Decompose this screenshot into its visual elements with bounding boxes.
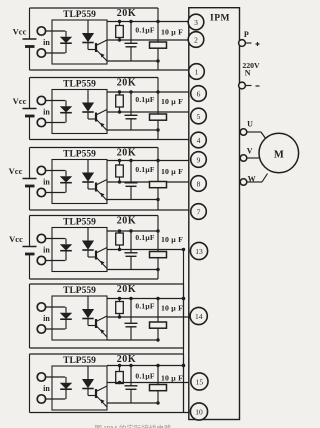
svg-text:Vcc: Vcc — [13, 96, 27, 106]
pin 14 terminal circle — [190, 307, 207, 324]
input LED D6 — [65, 377, 67, 383]
pin 4 terminal circle — [191, 132, 207, 148]
pin 1 terminal circle — [189, 64, 205, 80]
svg-text:U: U — [247, 120, 253, 129]
input terminal top channel 5 — [37, 303, 45, 311]
svg-text:in: in — [43, 384, 50, 393]
input terminal bottom channel 4 — [37, 256, 45, 264]
photodiode channel 3 — [87, 160, 89, 173]
wire input bottom from LED — [46, 122, 66, 124]
pin 3 terminal circle — [188, 14, 204, 30]
input LED D5 — [65, 307, 67, 313]
svg-text:TLP559: TLP559 — [63, 150, 96, 160]
optocoupler channel 1 outer box — [30, 7, 159, 9]
plus sign — [256, 43, 260, 45]
wire input top to LED — [46, 238, 66, 240]
input terminal top channel 4 — [37, 234, 45, 242]
Vcc top wire channel 6 — [107, 365, 184, 367]
svg-text:in: in — [43, 38, 50, 47]
Vcc top wire channel 5 — [107, 298, 184, 300]
wire input top to LED — [46, 306, 66, 308]
Vcc battery B3 in left edge — [29, 148, 31, 179]
svg-text:M: M — [274, 150, 284, 161]
optocoupler channel 6 outer box — [30, 353, 184, 355]
inner TLP559 IC box U2 — [52, 90, 107, 134]
terminal V wire — [247, 157, 262, 159]
Vcc battery B2 in left edge — [29, 78, 31, 109]
svg-text:TLP559: TLP559 — [63, 356, 96, 366]
input terminal top channel 6 — [37, 373, 45, 381]
emitter ground wire channel 6 — [107, 402, 158, 404]
svg-text:13: 13 — [195, 247, 203, 256]
wire input bottom from LED — [46, 260, 66, 262]
Vcc battery B4 in left edge — [29, 216, 31, 247]
svg-text:20K: 20K — [117, 354, 137, 365]
optocoupler channel 3 outer box — [30, 147, 159, 149]
phototransistor Q6 — [95, 389, 97, 398]
svg-text:20K: 20K — [117, 78, 137, 89]
input terminal bottom channel 1 — [37, 49, 45, 57]
svg-text:Vcc: Vcc — [13, 27, 27, 37]
emitter ground wire channel 5 — [107, 339, 158, 341]
svg-text:in: in — [43, 108, 50, 117]
output mid wire channel 2 — [107, 111, 193, 113]
input terminal bottom channel 3 — [37, 188, 45, 196]
wire input top to LED — [46, 376, 66, 378]
svg-text:10 μ F: 10 μ F — [161, 304, 183, 313]
input LED D3 — [65, 171, 67, 177]
input terminal bottom channel 6 — [37, 395, 45, 403]
low-side shared bus wire — [183, 250, 185, 413]
svg-text:14: 14 — [195, 312, 203, 321]
phototransistor Q4 — [95, 251, 97, 260]
Vcc battery B1 in left edge — [29, 8, 31, 39]
wire input top to LED — [46, 100, 66, 102]
photodiode channel 4 — [87, 228, 89, 241]
wire input top to LED — [46, 170, 66, 172]
pin 15 terminal circle — [191, 373, 208, 390]
svg-text:Vcc: Vcc — [9, 166, 23, 176]
emitter ground wire channel 4 — [107, 269, 158, 271]
svg-text:0.1μF: 0.1μF — [135, 165, 154, 174]
svg-text:15: 15 — [196, 377, 204, 386]
svg-text:10 μ F: 10 μ F — [161, 167, 183, 176]
svg-text:图 IPM 的实际接线电路: 图 IPM 的实际接线电路 — [94, 423, 172, 428]
optocoupler channel 5 outer box — [30, 283, 184, 285]
svg-text:IPM: IPM — [210, 14, 230, 24]
input LED D2 — [65, 101, 67, 107]
svg-text:0.1μF: 0.1μF — [135, 302, 154, 311]
svg-text:7: 7 — [197, 207, 201, 216]
wire input bottom from LED — [46, 192, 66, 194]
Vcc top wire channel 2 — [107, 91, 193, 93]
svg-text:10 μ F: 10 μ F — [161, 28, 183, 37]
pin 8 terminal circle — [191, 176, 207, 192]
svg-text:0.1μF: 0.1μF — [135, 26, 154, 35]
input LED D1 — [65, 31, 67, 37]
photodiode channel 6 — [87, 366, 89, 379]
svg-text:0.1μF: 0.1μF — [135, 372, 154, 381]
phototransistor Q3 — [95, 183, 97, 192]
svg-text:TLP559: TLP559 — [63, 10, 96, 20]
photodiode channel 2 — [87, 90, 89, 103]
pin 6 terminal circle — [191, 86, 207, 102]
svg-text:TLP559: TLP559 — [63, 80, 96, 90]
input terminal bottom channel 5 — [37, 325, 45, 333]
input terminal top channel 1 — [37, 27, 45, 35]
optocoupler channel 2 outer box — [30, 77, 159, 79]
phototransistor Q2 — [95, 113, 97, 122]
pin 13 terminal circle — [190, 242, 207, 259]
inner TLP559 IC box U1 — [52, 20, 107, 64]
pin 9 terminal circle — [191, 152, 207, 168]
svg-text:TLP559: TLP559 — [63, 286, 96, 296]
inner TLP559 IC box U5 — [52, 296, 107, 340]
output mid wire channel 4 — [107, 249, 184, 251]
svg-text:0.1μF: 0.1μF — [135, 233, 154, 242]
svg-text:in: in — [43, 178, 50, 187]
svg-text:20K: 20K — [117, 8, 137, 19]
svg-text:20K: 20K — [117, 148, 137, 159]
svg-text:in: in — [43, 246, 50, 255]
emitter ground wire channel 2 — [107, 129, 158, 131]
output mid wire channel 5 — [107, 316, 193, 318]
svg-text:W: W — [248, 175, 256, 184]
svg-text:20K: 20K — [117, 284, 137, 295]
svg-text:4: 4 — [197, 136, 201, 145]
phototransistor Q1 — [95, 43, 97, 52]
wire input bottom from LED — [46, 52, 66, 54]
svg-text:3: 3 — [194, 18, 198, 27]
svg-text:Vcc: Vcc — [9, 234, 23, 244]
svg-text:2: 2 — [194, 35, 198, 44]
svg-text:6: 6 — [197, 89, 201, 98]
svg-text:10 μ F: 10 μ F — [161, 374, 183, 383]
motor M — [259, 133, 299, 173]
svg-text:5: 5 — [197, 112, 201, 121]
phototransistor Q5 — [95, 319, 97, 328]
output mid wire channel 3 — [107, 181, 193, 183]
output mid wire channel 1 — [107, 39, 193, 41]
emitter ground wire channel 3 — [107, 199, 158, 201]
minus sign — [256, 85, 260, 87]
Vcc top wire channel 1 — [107, 21, 193, 23]
terminal U wire — [247, 131, 261, 133]
svg-text:V: V — [247, 146, 253, 155]
output mid wire channel 6 — [107, 382, 193, 384]
input LED D4 — [65, 239, 67, 245]
Vcc top wire channel 3 — [107, 160, 193, 162]
Vcc top wire channel 4 — [107, 230, 158, 232]
input terminal top channel 3 — [37, 166, 45, 174]
emitter ground wire channel 1 — [107, 60, 158, 62]
svg-text:0.1μF: 0.1μF — [135, 95, 154, 104]
inner TLP559 IC box U3 — [52, 160, 107, 204]
inner TLP559 IC box U6 — [52, 366, 107, 410]
inner TLP559 IC box U4 — [52, 228, 107, 272]
photodiode channel 1 — [87, 20, 89, 33]
terminal W wire — [247, 181, 262, 183]
svg-text:9: 9 — [197, 155, 201, 164]
svg-text:10 μ F: 10 μ F — [161, 235, 183, 244]
svg-text:P: P — [244, 30, 249, 39]
svg-text:TLP559: TLP559 — [63, 218, 96, 228]
svg-text:10 μ F: 10 μ F — [161, 97, 183, 106]
svg-text:20K: 20K — [117, 216, 137, 227]
svg-text:in: in — [43, 314, 50, 323]
pin 5 terminal circle — [191, 108, 207, 124]
svg-text:1: 1 — [195, 67, 199, 76]
pin 10 terminal circle — [190, 403, 207, 420]
optocoupler channel 4 outer box — [30, 215, 159, 217]
input terminal top channel 2 — [37, 96, 45, 104]
wire input bottom from LED — [46, 328, 66, 330]
pin 7 terminal circle — [191, 204, 207, 220]
1PM intelligent power module box — [189, 8, 240, 420]
input terminal bottom channel 2 — [37, 118, 45, 126]
wire input bottom from LED — [46, 398, 66, 400]
photodiode channel 5 — [87, 296, 89, 309]
svg-text:10: 10 — [195, 407, 203, 416]
pin 2 terminal circle — [188, 32, 204, 48]
svg-text:8: 8 — [197, 179, 201, 188]
svg-text:N: N — [245, 69, 251, 78]
wire input top to LED — [46, 30, 66, 32]
